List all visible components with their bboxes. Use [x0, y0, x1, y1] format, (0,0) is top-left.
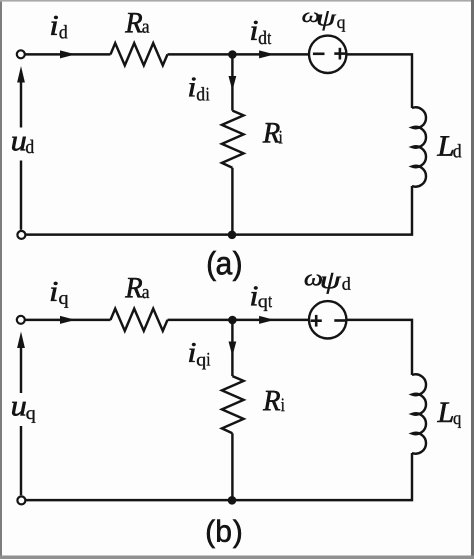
wire: resistor Ra to top node (b)	[168, 319, 233, 321]
node: top junction (b)	[228, 316, 237, 325]
label i_q	[51, 282, 68, 308]
label omega-psi_d (b)	[305, 273, 351, 294]
label (b) caption	[207, 520, 241, 549]
arrow: voltage u upward (b)	[17, 332, 25, 349]
wire: top node to voltage source (a)	[232, 53, 309, 55]
polarity plus sign (left inside source) (b)	[311, 315, 322, 327]
arrow: current i (b)	[60, 316, 76, 324]
label omega-psi_q (a)	[302, 11, 345, 31]
node: bottom junction (b)	[228, 496, 237, 505]
voltage source omega-psi (b)	[309, 301, 346, 338]
resistor Ra (b)	[111, 309, 168, 331]
wire: top node down to resistor Ri (b)	[231, 320, 233, 376]
label i_d	[51, 16, 67, 39]
resistor Ri (b)	[222, 376, 244, 433]
label L_d	[437, 136, 461, 157]
wire: top-left terminal to resistor Ra (b)	[25, 319, 111, 321]
wire: left branch upper segment (a)	[20, 83, 22, 128]
arrow: current it (b)	[259, 316, 275, 324]
label i_qi	[189, 343, 210, 369]
polarity minus sign (right inside source) (b)	[334, 319, 345, 322]
wire: inductor to bottom-right corner to bottom-left (a)	[25, 186, 412, 235]
label R_a (b)	[125, 278, 149, 298]
arrow: current it (a)	[259, 50, 275, 58]
node: top junction (a)	[228, 50, 237, 59]
wire: left branch lower segment (b)	[20, 426, 22, 495]
label L_q	[437, 403, 461, 428]
voltage source omega-psi (a)	[309, 36, 346, 73]
label i_qt	[251, 286, 272, 311]
label i_di	[189, 78, 209, 101]
label u_q	[12, 402, 35, 423]
inductor L (a)	[412, 107, 426, 186]
label (a) caption	[208, 251, 241, 281]
terminal: bottom-left input (b)	[17, 496, 25, 504]
polarity plus sign (right inside source) (a)	[334, 48, 345, 60]
inductor L (b)	[412, 374, 426, 453]
wire: left branch lower segment (a)	[20, 161, 22, 230]
node: bottom junction (a)	[228, 231, 237, 240]
wire: inductor to bottom-right corner to bottom-left (b)	[25, 453, 412, 500]
polarity minus sign (left inside source) (a)	[313, 52, 325, 55]
wire: left branch upper segment (b)	[20, 348, 22, 393]
terminal: top-left input (b)	[17, 316, 25, 324]
wire: top node down to resistor Ri (a)	[231, 54, 233, 110]
label i_dt	[251, 21, 271, 44]
label R_i (b)	[263, 391, 285, 411]
wire: top-left terminal to resistor Ra (a)	[25, 53, 111, 55]
wire: resistor Ri to bottom node (b)	[231, 433, 233, 500]
label u_d	[12, 137, 34, 153]
wire: source to top-right corner down to inductor (a)	[346, 54, 412, 108]
wire: top node to voltage source (b)	[232, 319, 309, 321]
resistor Ra (a)	[111, 43, 168, 65]
label R_i (a)	[263, 123, 283, 143]
arrow: current i (a)	[60, 50, 76, 58]
arrow: current ii downward (a)	[229, 76, 237, 91]
terminal: bottom-left input (a)	[17, 231, 25, 239]
wire: resistor Ra to top node (a)	[168, 53, 233, 55]
wire: resistor Ri to bottom node (a)	[231, 168, 233, 235]
label R_a (a)	[125, 13, 149, 33]
arrow: voltage u upward (a)	[17, 66, 25, 83]
arrow: current ii downward (b)	[229, 342, 237, 357]
wire: source to top-right corner down to inductor (b)	[346, 320, 412, 375]
terminal: top-left input (a)	[17, 50, 25, 58]
resistor Ri (a)	[222, 111, 244, 168]
